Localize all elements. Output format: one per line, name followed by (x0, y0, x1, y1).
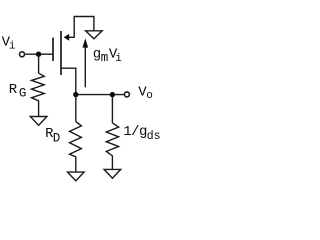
resistor 1/gds (106, 123, 118, 169)
wire RD lead (75, 95, 77, 122)
svg-text:o: o (146, 90, 153, 102)
wire gate node down to RG (38, 54, 40, 73)
junction dot (output node at 1/gds) (110, 92, 115, 97)
current source annotation arrow gmVi (line) (84, 47, 86, 88)
ground (below 1/gds) (104, 169, 121, 178)
wire source lead to output node (61, 68, 76, 94)
wire output node row (76, 94, 124, 96)
svg-text:ds: ds (147, 130, 161, 143)
junction dot (gate node) (36, 52, 41, 57)
terminal Vi (input port circle) (20, 52, 25, 57)
arrowhead of gmVi current arrow (points up) (83, 38, 89, 47)
transistor M1 channel bar (60, 31, 62, 75)
svg-text:R: R (9, 82, 18, 98)
ground (below RD) (68, 172, 85, 181)
arrowhead of drain lead (points left into channel) (64, 34, 70, 41)
svg-text:m: m (101, 51, 109, 65)
svg-text:D: D (53, 132, 61, 146)
svg-text:i: i (9, 40, 16, 52)
terminal Vo (output port circle) (124, 92, 129, 97)
svg-text:i: i (115, 53, 122, 65)
svg-text:G: G (19, 87, 27, 101)
transistor M1 gate bar (52, 38, 54, 61)
wire Vi to gate node (25, 53, 52, 55)
junction dot (output node at source) (73, 92, 78, 97)
ground (below RG) (30, 117, 47, 126)
resistor RD (70, 122, 82, 173)
wire drain lead up and to AC ground (68, 17, 94, 38)
ground (top right, drain AC ground) (86, 31, 103, 39)
resistor RG (32, 73, 45, 116)
wire 1/gds lead (111, 95, 113, 123)
